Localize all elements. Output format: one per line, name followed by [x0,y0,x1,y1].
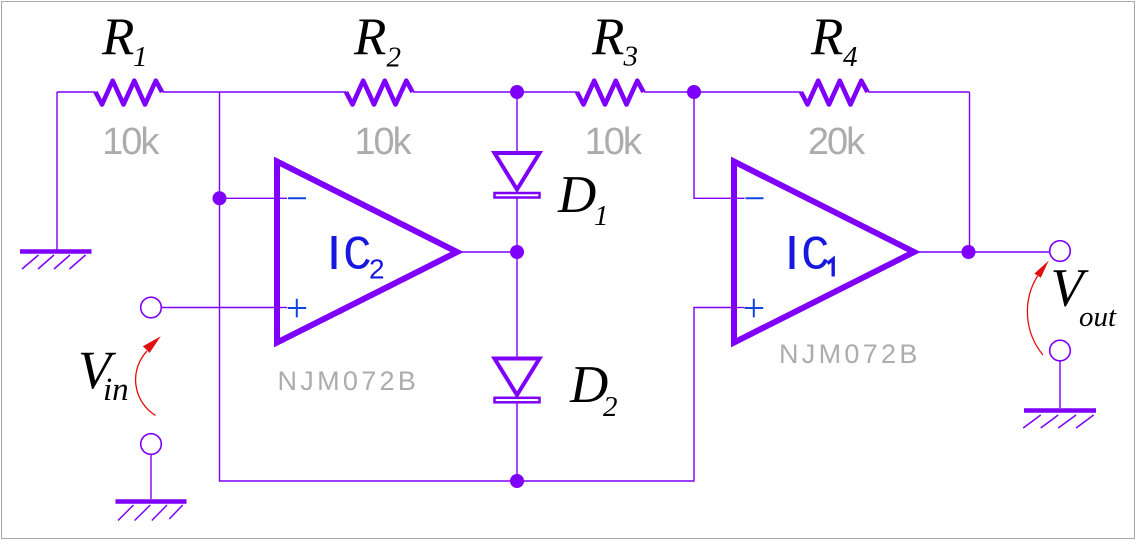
svg-text:2: 2 [387,42,402,74]
svg-text:10k: 10k [354,121,412,163]
svg-text:C: C [801,230,830,284]
svg-text:out: out [1079,301,1117,333]
svg-text:NJM072B: NJM072B [779,339,921,369]
svg-text:20k: 20k [808,121,866,163]
svg-text:10k: 10k [585,121,643,163]
svg-text:NJM072B: NJM072B [278,366,420,396]
svg-text:4: 4 [843,41,858,73]
svg-text:1: 1 [594,200,609,232]
svg-text:in: in [103,372,129,408]
svg-text:10k: 10k [102,121,160,163]
svg-text:R: R [353,8,386,66]
svg-text:2: 2 [369,254,385,285]
svg-text:R: R [101,8,134,66]
svg-text:1: 1 [133,41,148,73]
svg-text:2: 2 [603,391,618,423]
svg-text:C: C [343,230,372,284]
svg-text:R: R [591,8,624,66]
svg-text:R: R [810,8,843,66]
svg-text:3: 3 [623,41,639,73]
svg-text:D: D [557,166,596,224]
